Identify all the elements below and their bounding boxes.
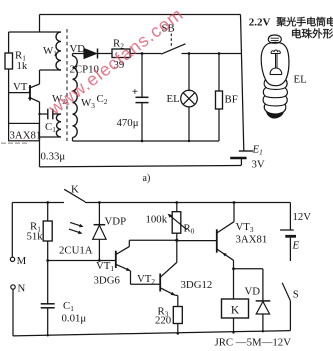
svg-text:1k: 1k (17, 60, 28, 72)
svg-text:+: + (132, 87, 138, 98)
svg-text:EL: EL (167, 93, 180, 105)
svg-text:0.01μ: 0.01μ (62, 313, 87, 325)
svg-text:E: E (292, 240, 300, 252)
svg-text:2CU1A: 2CU1A (59, 245, 93, 257)
svg-text:N: N (18, 283, 26, 295)
svg-text:a): a) (143, 173, 151, 184)
svg-text:12V: 12V (293, 211, 312, 223)
svg-text:VD: VD (70, 43, 86, 55)
svg-text:3AX81: 3AX81 (236, 234, 268, 246)
svg-text:JRC —5M—12V: JRC —5M—12V (215, 337, 292, 349)
svg-text:0.33μ: 0.33μ (41, 151, 66, 163)
svg-text:S: S (293, 289, 299, 301)
svg-text:K: K (71, 184, 79, 196)
svg-text:3V: 3V (252, 159, 265, 171)
svg-text:EL: EL (294, 74, 307, 86)
svg-text:220: 220 (155, 315, 171, 327)
svg-text:VD: VD (245, 286, 261, 298)
svg-text:3AX81: 3AX81 (10, 130, 42, 142)
svg-text:M: M (17, 255, 27, 267)
svg-text:470μ: 470μ (117, 117, 139, 129)
svg-text:3DG6: 3DG6 (94, 275, 121, 287)
svg-text:100k: 100k (146, 214, 168, 226)
svg-text:51k: 51k (27, 231, 44, 243)
svg-text:3DG12: 3DG12 (181, 279, 213, 291)
svg-text:2.2V: 2.2V (249, 17, 271, 29)
svg-text:BF: BF (225, 94, 238, 106)
svg-text:K: K (231, 305, 240, 317)
svg-text:VDP: VDP (105, 216, 127, 228)
